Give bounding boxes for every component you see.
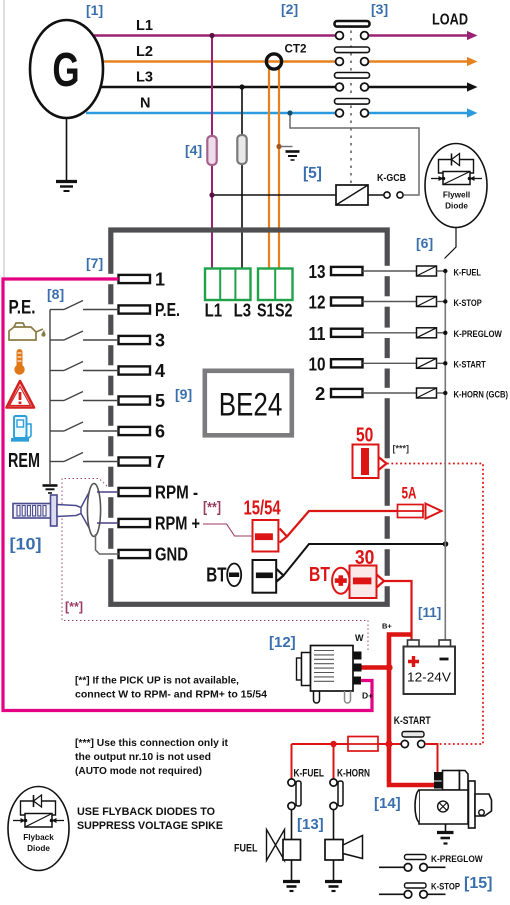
wire output to relay K-STOP bbox=[363, 301, 417, 303]
svg-text:K-HORN: K-HORN bbox=[337, 768, 370, 780]
terminal 4 bbox=[119, 366, 151, 374]
wire B+ trunk (thick red) bbox=[389, 635, 438, 786]
wire L1 drop to fuse and terminal L1 bbox=[211, 36, 213, 270]
svg-text:REM: REM bbox=[8, 450, 40, 472]
node common K-HORN (GCB) bbox=[443, 391, 447, 395]
wire relay K-HORN (GCB) to common bbox=[437, 392, 446, 394]
border gap bbox=[384, 266, 390, 276]
pickup connector shell bbox=[87, 484, 100, 537]
svg-text:K-START: K-START bbox=[394, 715, 431, 727]
horn bbox=[325, 836, 363, 861]
wire L3 from breaker to LOAD arrow bbox=[369, 86, 470, 88]
terminal block S1/S2 (green) bbox=[258, 269, 293, 301]
svg-text:[**] If the PICK UP is not ava: [**] If the PICK UP is not available, bbox=[75, 676, 239, 687]
svg-text:[***] Use this connection only: [***] Use this connection only it bbox=[75, 738, 229, 749]
wire pickup shield to GND bbox=[96, 534, 119, 554]
svg-text:GND: GND bbox=[155, 544, 188, 564]
svg-text:10: 10 bbox=[309, 353, 326, 374]
dashed mechanical link of breaker bbox=[350, 23, 352, 186]
svg-text:[4]: [4] bbox=[185, 142, 202, 158]
svg-text:P.E.: P.E. bbox=[155, 300, 180, 320]
relay coil K-HORN (GCB) bbox=[417, 388, 437, 398]
contact K-STOP auxiliary bbox=[379, 883, 446, 898]
arrow L3 LOAD bbox=[467, 82, 478, 91]
node L3 drop bbox=[239, 84, 244, 89]
wire K-FUEL to fuel valve bbox=[291, 810, 293, 841]
terminal W bbox=[354, 652, 362, 660]
terminal block L1/L3 (green) bbox=[205, 269, 251, 301]
node common K-START bbox=[443, 361, 447, 365]
terminal 15/54 (red) bbox=[253, 520, 279, 552]
wire RPM+ alt connection to 15/54 bbox=[203, 524, 253, 536]
svg-text:connect W to RPM- and RPM+ to: connect W to RPM- and RPM+ to 15/54 bbox=[75, 690, 267, 701]
svg-text:7: 7 bbox=[155, 452, 165, 472]
svg-text:[15]: [15] bbox=[464, 875, 492, 892]
svg-text:[11]: [11] bbox=[418, 605, 441, 620]
svg-text:K-PREGLOW: K-PREGLOW bbox=[431, 854, 483, 864]
svg-text:RPM -: RPM - bbox=[155, 482, 198, 502]
leader from flywheel legend to relay bbox=[445, 228, 457, 259]
svg-text:G: G bbox=[52, 43, 79, 97]
border gap bbox=[108, 487, 114, 497]
relay coil K-PREGLOW bbox=[417, 328, 437, 338]
wire branch to K-FUEL / K-HORN bbox=[292, 743, 349, 745]
svg-text:[14]: [14] bbox=[374, 795, 401, 812]
wire valve to ground bbox=[291, 860, 293, 881]
relay coil K-STOP bbox=[417, 297, 437, 307]
arrow 5A output bbox=[426, 504, 442, 519]
border gap bbox=[108, 395, 114, 405]
border gap bbox=[108, 365, 114, 375]
icon temperature bbox=[14, 349, 24, 375]
charge alternator [12] bbox=[297, 646, 354, 704]
svg-text:S1: S1 bbox=[257, 301, 275, 321]
wire output to relay K-PREGLOW bbox=[363, 332, 417, 334]
wire L2 from generator to breaker bbox=[100, 60, 336, 62]
breaker pole L3: contact circles bbox=[336, 83, 344, 91]
wire trunk to K-START contact bbox=[389, 743, 401, 745]
svg-text:[13]: [13] bbox=[297, 816, 324, 833]
svg-text:L1: L1 bbox=[205, 301, 223, 321]
relay coil K-START bbox=[417, 358, 437, 368]
contact tip BT+ bbox=[377, 575, 384, 588]
border gap bbox=[108, 518, 114, 528]
BE24 label box U1 bbox=[205, 371, 292, 436]
current transformer CT2 bbox=[266, 54, 281, 69]
terminal RPM + bbox=[119, 519, 151, 527]
terminal 12 bbox=[331, 297, 363, 305]
svg-text:K-PREGLOW: K-PREGLOW bbox=[454, 329, 503, 339]
node common K-FUEL bbox=[443, 269, 447, 273]
border gap bbox=[384, 576, 390, 586]
flyback diode legend (bottom left) bbox=[8, 787, 69, 871]
contact K-FUEL bbox=[288, 779, 301, 810]
border gap bbox=[108, 335, 114, 345]
wire L3 from generator to breaker bbox=[101, 86, 336, 88]
arrow N LOAD bbox=[467, 108, 478, 117]
svg-text:K-STOP: K-STOP bbox=[431, 882, 460, 892]
terminal 13 bbox=[331, 267, 363, 275]
svg-text:the output nr.10 is not used: the output nr.10 is not used bbox=[75, 752, 211, 763]
svg-text:[7]: [7] bbox=[86, 255, 103, 271]
svg-text:12: 12 bbox=[309, 292, 326, 313]
switch S3 bbox=[50, 362, 119, 371]
breaker pole N: contact bar bbox=[335, 99, 370, 105]
node coil supply on L1 drop bbox=[209, 192, 214, 197]
switch S5 bbox=[50, 422, 119, 431]
svg-text:L3: L3 bbox=[234, 301, 252, 321]
wire relay K-PREGLOW to common bbox=[437, 332, 446, 334]
svg-text:1: 1 bbox=[155, 269, 165, 289]
wire N from breaker to LOAD arrow bbox=[369, 112, 470, 114]
terminal GND bbox=[119, 550, 151, 558]
wire alternator B+ to trunk bbox=[362, 665, 390, 670]
svg-text:D+: D+ bbox=[362, 691, 373, 701]
terminal 7 bbox=[119, 457, 151, 465]
border gap bbox=[384, 296, 390, 306]
terminal 6 bbox=[119, 427, 151, 435]
border gap bbox=[108, 549, 114, 559]
svg-text:L1: L1 bbox=[136, 18, 153, 34]
border gap bbox=[108, 456, 114, 466]
svg-text:[1]: [1] bbox=[86, 2, 103, 18]
svg-text:[10]: [10] bbox=[10, 536, 42, 554]
svg-text:K-FUEL: K-FUEL bbox=[454, 267, 482, 277]
terminal 50 (red) bbox=[353, 445, 379, 479]
svg-text:N: N bbox=[140, 96, 150, 112]
node L1 drop bbox=[209, 33, 214, 38]
svg-text:Flyback: Flyback bbox=[23, 833, 54, 842]
svg-text:[5]: [5] bbox=[303, 165, 322, 182]
arrow L2 LOAD bbox=[467, 57, 478, 66]
svg-text:[3]: [3] bbox=[371, 1, 388, 17]
icon oil pressure bbox=[9, 323, 46, 340]
svg-text:K-FUEL: K-FUEL bbox=[294, 768, 325, 780]
terminal P.E. bbox=[119, 305, 151, 313]
node B+ alternator bbox=[385, 664, 392, 671]
svg-text:(AUTO mode not required): (AUTO mode not required) bbox=[75, 766, 202, 777]
svg-text:30: 30 bbox=[355, 547, 375, 569]
starter motor M1 bbox=[415, 771, 492, 829]
wire L2 from breaker to LOAD arrow bbox=[369, 60, 470, 62]
dotted wire 50 to K-START bbox=[387, 464, 483, 745]
svg-text:3: 3 bbox=[155, 330, 165, 350]
svg-text:5: 5 bbox=[155, 391, 165, 411]
contact tip BT- bbox=[277, 569, 284, 582]
svg-text:Diode: Diode bbox=[27, 844, 50, 853]
svg-text:LOAD: LOAD bbox=[432, 12, 468, 29]
svg-text:P.E.: P.E. bbox=[9, 298, 36, 319]
page edge line bbox=[3, 0, 5, 280]
breaker pole L2: contact bar bbox=[335, 47, 370, 53]
switch S6 bbox=[50, 453, 119, 462]
wire BT+ to battery positive bbox=[384, 581, 412, 640]
node common K-PREGLOW bbox=[443, 331, 447, 335]
svg-text:B+: B+ bbox=[382, 622, 392, 631]
svg-text:K-START: K-START bbox=[454, 360, 487, 370]
node common K-STOP bbox=[443, 299, 447, 303]
svg-text:CT2: CT2 bbox=[285, 42, 307, 56]
BE24 controller enclosure bbox=[111, 230, 387, 604]
contact K-START bbox=[402, 732, 424, 738]
border gap bbox=[384, 358, 390, 368]
wire K-START to starter solenoid bbox=[425, 744, 438, 772]
wire output to relay K-START bbox=[363, 362, 417, 364]
contactor coil K5 (GCB coil) bbox=[336, 185, 368, 205]
CT2 orange secondary wires to S1 S2 bbox=[268, 66, 270, 269]
relay common supply line bbox=[444, 271, 446, 640]
contact tip 50 bbox=[379, 457, 387, 470]
icon warning triangle bbox=[7, 381, 35, 408]
border gap bbox=[108, 274, 114, 284]
fuse 5A bbox=[398, 505, 424, 518]
wire relay K-STOP to common bbox=[437, 301, 446, 303]
wire relay K-START to common bbox=[437, 362, 446, 364]
svg-text:6: 6 bbox=[155, 421, 165, 441]
svg-text:[6]: [6] bbox=[416, 235, 433, 251]
svg-text:[2]: [2] bbox=[281, 1, 298, 17]
svg-text:[12]: [12] bbox=[269, 634, 296, 651]
svg-text:[**]: [**] bbox=[65, 600, 83, 614]
terminal D+ bbox=[353, 677, 361, 685]
terminal 11 bbox=[331, 329, 363, 337]
wire generator to ground bbox=[66, 118, 68, 180]
node on N line bbox=[287, 110, 292, 115]
svg-text:BT: BT bbox=[206, 564, 226, 586]
node B+ K-START bbox=[385, 740, 392, 747]
breaker pole L1: contact circles bbox=[336, 32, 344, 40]
ground horn bbox=[325, 882, 342, 892]
switch S1 bbox=[50, 301, 119, 310]
fuse F2 (gray) bbox=[237, 135, 246, 164]
fuse F1 (purple) bbox=[207, 136, 216, 165]
wire L1 from breaker to LOAD arrow bbox=[369, 34, 470, 36]
svg-text:BE24: BE24 bbox=[219, 387, 283, 423]
wire output to relay K-HORN (GCB) bbox=[363, 392, 417, 394]
contact tip 15/54 bbox=[280, 529, 287, 543]
terminal 10 bbox=[331, 359, 363, 367]
breaker pole L3: contact bar bbox=[335, 73, 370, 79]
breaker pole L2: contact circles bbox=[336, 58, 344, 66]
icon fuel level bbox=[11, 416, 31, 442]
wire output to relay K-FUEL bbox=[363, 270, 417, 272]
border gap bbox=[108, 426, 114, 436]
svg-text:Flywell: Flywell bbox=[443, 191, 470, 200]
wire horn to ground bbox=[333, 860, 335, 881]
contact K-PREGLOW auxiliary bbox=[379, 855, 446, 872]
wire pickup to RPM- bbox=[97, 491, 119, 493]
node S2 ground tap bbox=[276, 144, 281, 149]
generator G symbol bbox=[30, 20, 103, 118]
wire excitation (magenta) from D+ to terminal 1 bbox=[3, 279, 372, 711]
svg-text:[8]: [8] bbox=[47, 286, 64, 302]
svg-text:5A: 5A bbox=[402, 485, 417, 503]
fuse K-FUEL/K-HORN branch bbox=[348, 743, 389, 745]
svg-text:BT: BT bbox=[309, 564, 330, 586]
wire K-HORN to horn bbox=[333, 810, 335, 841]
svg-text:[9]: [9] bbox=[175, 386, 192, 402]
svg-text:K-STOP: K-STOP bbox=[454, 298, 482, 308]
wire pickup to RPM+ bbox=[97, 522, 119, 524]
battery 12-24V bbox=[404, 640, 456, 694]
svg-text:11: 11 bbox=[309, 323, 326, 344]
svg-text:S2: S2 bbox=[275, 301, 293, 321]
svg-text:13: 13 bbox=[309, 261, 326, 282]
wire K-GCB to neutral bbox=[290, 113, 419, 195]
contact K-HORN bbox=[330, 779, 343, 810]
contact K-GCB bbox=[368, 194, 384, 196]
svg-text:50: 50 bbox=[356, 425, 373, 447]
ground CT2 secondary bbox=[286, 152, 300, 161]
breaker pole L1: contact bar bbox=[335, 21, 370, 27]
flywheel diode legend (top right) bbox=[425, 144, 487, 228]
svg-text:[***]: [***] bbox=[393, 444, 410, 454]
wire 15/54 to 5A fuse arrow (red) bbox=[287, 511, 398, 537]
svg-text:SUPPRESS VOLTAGE SPIKE: SUPPRESS VOLTAGE SPIKE bbox=[77, 820, 223, 832]
svg-text:12-24V: 12-24V bbox=[407, 670, 451, 685]
border gap bbox=[384, 328, 390, 338]
wire BT- to battery negative bbox=[284, 544, 446, 576]
terminal BT- (black) bbox=[253, 560, 277, 593]
wire N from generator to breaker bbox=[86, 112, 336, 114]
svg-text:L3: L3 bbox=[136, 70, 153, 86]
terminal BT+ / 30 (red) bbox=[350, 566, 377, 599]
dashed alternative-connection box [**] bbox=[62, 479, 368, 651]
ground fuel valve bbox=[283, 882, 300, 892]
svg-text:[**]: [**] bbox=[203, 499, 221, 516]
arrow L1 LOAD bbox=[467, 31, 478, 40]
svg-text:15/54: 15/54 bbox=[244, 498, 282, 520]
relay coil K-FUEL bbox=[417, 266, 437, 276]
ground generator bbox=[56, 182, 77, 192]
breaker pole N: contact circles bbox=[336, 109, 344, 117]
wire relay K-FUEL to common bbox=[437, 270, 446, 272]
terminal 2 bbox=[331, 389, 363, 397]
switch S4 bbox=[50, 392, 119, 401]
ground switch bus bbox=[43, 486, 58, 494]
svg-text:FUEL: FUEL bbox=[234, 843, 258, 855]
terminal 5 bbox=[119, 396, 151, 404]
border gap bbox=[384, 388, 390, 398]
svg-text:USE FLYBACK DIODES TO: USE FLYBACK DIODES TO bbox=[77, 806, 215, 818]
wire L3 drop to fuse and terminal L3 bbox=[241, 87, 243, 269]
svg-text:W: W bbox=[355, 633, 364, 643]
ground starter bbox=[445, 824, 447, 831]
terminal 1 bbox=[119, 275, 151, 283]
switch common bus bbox=[49, 310, 51, 485]
terminal 3 bbox=[119, 336, 151, 344]
svg-text:K-HORN (GCB): K-HORN (GCB) bbox=[454, 389, 509, 399]
svg-text:L2: L2 bbox=[136, 44, 153, 60]
wire coil supply from L1 drop bbox=[212, 194, 336, 196]
switch S2 bbox=[50, 331, 119, 340]
terminal B+ bbox=[354, 664, 362, 672]
border gap bbox=[384, 506, 390, 516]
terminal RPM - bbox=[119, 488, 151, 496]
border gap bbox=[384, 458, 390, 468]
svg-text:RPM +: RPM + bbox=[155, 513, 200, 533]
svg-text:K-GCB: K-GCB bbox=[377, 173, 406, 184]
border gap bbox=[384, 539, 390, 549]
svg-text:2: 2 bbox=[315, 383, 325, 404]
border gap bbox=[108, 304, 114, 314]
pickup sensor PK1 bbox=[13, 490, 91, 531]
svg-text:Diode: Diode bbox=[445, 202, 468, 211]
fuel solenoid valve bbox=[267, 830, 301, 861]
svg-text:4: 4 bbox=[155, 361, 165, 381]
wire L1 from generator to breaker bbox=[92, 34, 336, 36]
